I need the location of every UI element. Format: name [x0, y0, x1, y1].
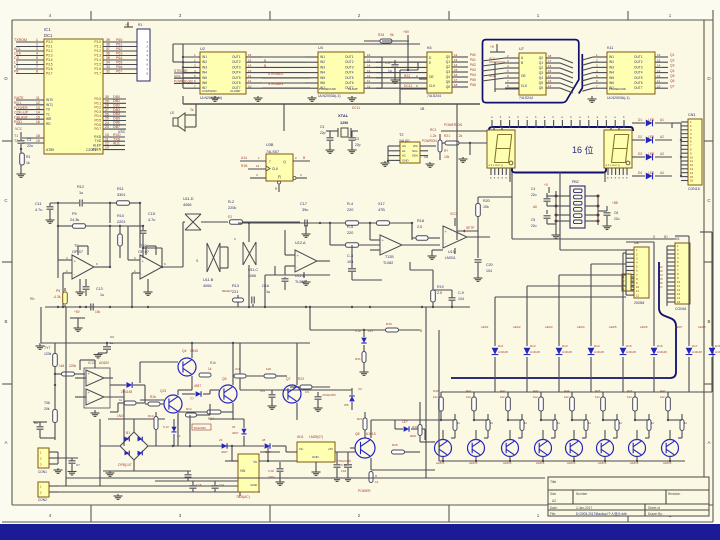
svg-text:12: 12 [657, 74, 661, 78]
svg-text:R12: R12 [77, 185, 84, 189]
svg-text:U3B: U3B [266, 143, 274, 147]
svg-text:4066: 4066 [203, 284, 211, 288]
svg-text:a b c d e f g: a b c d e f g [489, 163, 504, 167]
svg-text:18: 18 [454, 83, 458, 87]
svg-text:LE?: LE? [402, 420, 408, 424]
svg-text:VIN: VIN [240, 469, 246, 473]
svg-text:37: 37 [106, 47, 110, 51]
svg-text:D4: D4 [638, 171, 642, 175]
svg-text:E2: E2 [228, 215, 232, 219]
svg-text:1u: 1u [266, 290, 270, 294]
svg-text:C1: C1 [27, 138, 32, 142]
svg-text:221: 221 [232, 290, 238, 294]
svg-text:10: 10 [367, 84, 371, 88]
svg-text:4007: 4007 [232, 431, 239, 435]
svg-text:Q8: Q8 [355, 432, 360, 436]
svg-text:LED6: LED6 [640, 325, 648, 329]
svg-text:A14: A14 [241, 156, 247, 160]
svg-text:1u: 1u [79, 191, 83, 195]
svg-text:11: 11 [657, 79, 660, 83]
svg-text:LS: LS [170, 111, 174, 115]
svg-text:A2: A2 [402, 154, 406, 158]
svg-text:1k4: 1k4 [59, 364, 64, 368]
svg-text:2.0: 2.0 [437, 291, 442, 295]
svg-text:22p: 22p [355, 143, 361, 147]
svg-text:GND: GND [312, 455, 320, 459]
svg-text:C5: C5 [531, 218, 535, 222]
svg-text:INT0: INT0 [46, 98, 53, 102]
svg-text:CS: CS [14, 56, 20, 60]
svg-text:IN4: IN4 [320, 71, 325, 75]
svg-text:R10: R10 [117, 214, 124, 218]
svg-text:1k2: 1k2 [595, 395, 600, 399]
svg-text:OUT2: OUT2 [345, 60, 354, 64]
svg-text:14: 14 [657, 64, 661, 68]
svg-text:P60: P60 [470, 53, 476, 57]
svg-text:OUT6: OUT6 [634, 81, 643, 85]
svg-text:4700u/25V: 4700u/25V [322, 393, 336, 397]
svg-text:P3.6: P3.6 [46, 67, 53, 71]
svg-text:LED: LED [648, 152, 655, 156]
svg-text:74LS244: 74LS244 [427, 94, 441, 98]
svg-text:IN1: IN1 [320, 55, 325, 59]
svg-text:T2: T2 [399, 133, 403, 137]
svg-text:1k2: 1k2 [466, 395, 471, 399]
svg-text:P1.4: P1.4 [94, 58, 101, 62]
svg-text:15: 15 [657, 58, 661, 62]
svg-text:U13: U13 [448, 250, 455, 254]
svg-text:1k2: 1k2 [433, 395, 438, 399]
svg-text:5: 5 [36, 56, 38, 60]
svg-text:V2: V2 [358, 387, 362, 391]
svg-text:P3.1: P3.1 [46, 45, 53, 49]
svg-text:OUT4: OUT4 [232, 71, 241, 75]
svg-text:23: 23 [219, 438, 223, 442]
svg-text:CLK: CLK [521, 84, 528, 88]
svg-text:C7: C7 [76, 463, 80, 467]
svg-text:25: 25 [232, 425, 236, 429]
svg-text:OUT3: OUT3 [232, 65, 241, 69]
svg-text:Q: Q [283, 160, 286, 164]
svg-text:R21: R21 [357, 417, 363, 421]
svg-text:P66: P66 [470, 83, 476, 87]
svg-text:4937: 4937 [194, 384, 201, 388]
svg-text:Date:: Date: [550, 506, 558, 510]
svg-text:IN2: IN2 [202, 60, 207, 64]
svg-text:P66: P66 [116, 65, 122, 69]
svg-text:SCL: SCL [412, 149, 418, 153]
svg-text:P8: P8 [14, 70, 18, 74]
svg-text:+5V: +5V [74, 310, 81, 314]
svg-text:U7: U7 [519, 47, 524, 51]
svg-text:P64: P64 [116, 56, 122, 60]
svg-text:A6: A6 [533, 205, 537, 209]
svg-text:IC4: IC4 [235, 367, 240, 371]
svg-text:P65: P65 [116, 60, 122, 64]
svg-text:W6: W6 [344, 403, 349, 407]
svg-text:LN4148: LN4148 [562, 350, 572, 354]
svg-text:位: 位 [584, 145, 593, 156]
svg-text:Q6: Q6 [670, 79, 675, 83]
svg-text:OUT3: OUT3 [345, 65, 354, 69]
svg-text:Q2: Q2 [446, 65, 450, 69]
svg-text:WR: WR [46, 117, 52, 121]
svg-text:P3.4: P3.4 [46, 58, 53, 62]
svg-text:+5: +5 [544, 183, 548, 187]
svg-text:A3: A3 [660, 152, 664, 156]
svg-text:LN4148: LN4148 [530, 350, 540, 354]
svg-text:47B: 47B [378, 208, 385, 212]
svg-text:16: 16 [572, 145, 582, 155]
svg-text:2003M: 2003M [634, 301, 645, 305]
svg-text:R25: R25 [392, 443, 398, 447]
svg-text:Q5: Q5 [539, 81, 543, 85]
svg-text:Revision: Revision [668, 492, 680, 496]
svg-text:Ta: Ta [190, 108, 194, 112]
svg-text:4007: 4007 [221, 450, 228, 454]
svg-text:A: A [4, 440, 7, 445]
svg-text:15: 15 [548, 69, 552, 73]
svg-text:2: 2 [36, 43, 38, 47]
svg-text:22u: 22u [531, 224, 537, 228]
svg-text:T?: T? [190, 397, 194, 401]
svg-text:OUT4: OUT4 [634, 71, 643, 75]
svg-text:ALE: ALE [113, 142, 120, 146]
svg-text:+5: +5 [490, 45, 494, 49]
svg-text:OUT4: OUT4 [345, 71, 354, 75]
svg-text:DC11: DC11 [404, 84, 412, 88]
svg-text:74LS244: 74LS244 [519, 96, 533, 100]
svg-text:P67: P67 [116, 69, 122, 73]
svg-text:P1.7: P1.7 [94, 72, 101, 76]
svg-text:B: B [4, 319, 7, 324]
svg-text:14: 14 [367, 64, 371, 68]
svg-text:39: 39 [106, 38, 110, 42]
svg-text:U11.D: U11.D [183, 197, 194, 201]
svg-text:15: 15 [36, 115, 40, 119]
svg-text:P63: P63 [116, 51, 122, 55]
svg-text:R47: R47 [660, 389, 666, 393]
svg-text:35: 35 [106, 56, 110, 60]
svg-text:8: 8 [36, 70, 38, 74]
svg-text:C-9: C-9 [458, 291, 464, 295]
svg-text:R31: R31 [355, 357, 361, 361]
svg-text:P3.5: P3.5 [46, 63, 53, 67]
svg-text:CLK: CLK [14, 52, 22, 56]
svg-text:LED8: LED8 [698, 325, 706, 329]
svg-text:Q5: Q5 [446, 80, 450, 84]
svg-text:16: 16 [690, 179, 694, 183]
svg-text:R1b: R1b [210, 361, 216, 365]
svg-text:1k2: 1k2 [627, 395, 632, 399]
svg-text:15: 15 [367, 58, 371, 62]
svg-text:x: x [234, 237, 236, 241]
svg-text:Q4: Q4 [182, 349, 187, 353]
svg-text:PSEN: PSEN [92, 148, 101, 152]
svg-text:R46: R46 [627, 389, 633, 393]
svg-text:R43: R43 [533, 389, 539, 393]
svg-text:Q5: Q5 [222, 377, 227, 381]
svg-text:LN4148: LN4148 [657, 350, 667, 354]
svg-text:4066: 4066 [183, 203, 191, 207]
svg-text:34: 34 [106, 61, 110, 65]
svg-text:TL082: TL082 [383, 261, 393, 265]
svg-text:1k2: 1k2 [564, 395, 569, 399]
svg-text:14: 14 [248, 64, 252, 68]
svg-text:E: E [429, 61, 431, 65]
svg-text:POWER-ON: POWER-ON [444, 123, 463, 127]
svg-text:P1.6: P1.6 [94, 67, 101, 71]
svg-text:C17: C17 [300, 202, 307, 206]
svg-text:E7: E7 [14, 65, 18, 69]
svg-text:5.1V: 5.1V [163, 425, 169, 429]
svg-text:OE: OE [521, 74, 526, 78]
svg-text:DB7: DB7 [113, 125, 120, 129]
svg-text:RC1: RC1 [430, 128, 437, 132]
svg-text:3: 3 [36, 47, 38, 51]
svg-text:Q4: Q4 [539, 76, 543, 80]
svg-text:ACL: ACL [14, 47, 21, 51]
svg-text:Q13: Q13 [160, 389, 166, 393]
svg-text:CON16: CON16 [675, 307, 686, 311]
svg-text:C15: C15 [148, 212, 155, 216]
svg-text:104: 104 [341, 469, 346, 473]
svg-text:OUT7: OUT7 [232, 86, 241, 90]
svg-text:R22: R22 [404, 74, 410, 78]
svg-text:IN2: IN2 [609, 60, 614, 64]
svg-text:R21: R21 [444, 134, 450, 138]
svg-text:R1b: R1b [150, 395, 156, 399]
svg-text:R41: R41 [466, 389, 472, 393]
svg-text:STROBE2: STROBE2 [268, 72, 284, 76]
svg-text:D2: D2 [638, 135, 642, 139]
svg-text:10k: 10k [444, 155, 450, 159]
svg-text:18: 18 [36, 134, 40, 138]
svg-text:13: 13 [548, 79, 552, 83]
svg-text:R34: R34 [378, 33, 384, 37]
svg-text:Q2: Q2 [670, 58, 675, 62]
svg-text:IN6: IN6 [320, 81, 325, 85]
svg-text:1k2: 1k2 [500, 395, 505, 399]
svg-text:IC1: IC1 [44, 27, 51, 32]
svg-text:3301: 3301 [117, 193, 125, 197]
svg-text:11: 11 [367, 79, 370, 83]
svg-text:10k: 10k [483, 205, 489, 209]
svg-text:P1.0: P1.0 [94, 40, 101, 44]
svg-text:13: 13 [36, 106, 40, 110]
svg-text:LED7: LED7 [675, 325, 683, 329]
svg-text:10: 10 [248, 84, 252, 88]
svg-text:XTAL: XTAL [338, 113, 349, 118]
svg-text:16: 16 [248, 53, 252, 57]
svg-text:P3.7: P3.7 [46, 72, 53, 76]
svg-text:LM29(07): LM29(07) [309, 435, 323, 439]
svg-text:C8: C8 [424, 155, 428, 159]
svg-text:INT1: INT1 [46, 103, 53, 107]
svg-text:-4.3k: -4.3k [53, 295, 61, 299]
svg-text:GND: GND [250, 483, 258, 487]
svg-text:A4: A4 [660, 171, 664, 175]
svg-text:Q4: Q4 [446, 75, 450, 79]
svg-text:P3.2: P3.2 [46, 49, 53, 53]
svg-text:13: 13 [105, 146, 109, 150]
svg-text:Q1: Q1 [539, 61, 543, 65]
svg-text:A1: A1 [402, 149, 406, 153]
svg-text:Sheet of: Sheet of [648, 506, 660, 510]
svg-text:C9: C9 [305, 390, 309, 394]
svg-text:20k: 20k [44, 407, 50, 411]
svg-text:7805(AC): 7805(AC) [236, 495, 250, 499]
svg-text:Vo: Vo [253, 460, 257, 464]
svg-text:POWRON: POWRON [422, 139, 437, 143]
svg-text:36: 36 [106, 52, 110, 56]
svg-text:OUT1: OUT1 [232, 55, 241, 59]
svg-text:DC11: DC11 [352, 106, 360, 110]
svg-text:1: 1 [36, 38, 38, 42]
svg-text:C11: C11 [35, 202, 42, 206]
svg-text:16: 16 [367, 53, 371, 57]
svg-text:T0: T0 [46, 108, 50, 112]
svg-text:Drawn By:: Drawn By: [648, 512, 663, 516]
svg-text:OUT6: OUT6 [345, 81, 354, 85]
svg-text:IN2: IN2 [320, 60, 325, 64]
svg-text:16: 16 [657, 53, 661, 57]
svg-text:23: 23 [105, 125, 109, 129]
svg-text:R: R [278, 175, 281, 180]
svg-text:4.7u: 4.7u [148, 218, 155, 222]
svg-text:P62: P62 [116, 47, 122, 51]
svg-text:Q2: Q2 [539, 66, 543, 70]
svg-text:12: 12 [36, 101, 40, 105]
svg-text:OPB(147: OPB(147 [118, 463, 132, 467]
svg-text:12: 12 [548, 84, 552, 88]
svg-text:OUT3: OUT3 [634, 65, 643, 69]
svg-text:220: 220 [347, 208, 353, 212]
svg-text:Q7: Q7 [670, 84, 675, 88]
svg-text:P9: P9 [72, 212, 77, 216]
svg-text:IN4: IN4 [609, 71, 614, 75]
svg-text:12: 12 [454, 53, 458, 57]
svg-text:LN4148: LN4148 [692, 350, 702, 354]
svg-text:10k: 10k [95, 310, 101, 314]
svg-text:1k: 1k [119, 398, 123, 402]
svg-text:D18: D18 [715, 344, 720, 348]
svg-text:CON2: CON2 [38, 498, 47, 502]
svg-text:LED: LED [648, 118, 655, 122]
svg-text:POWERGND: POWERGND [319, 87, 336, 91]
svg-text:Q3: Q3 [539, 71, 543, 75]
svg-text:17: 17 [454, 78, 458, 82]
svg-text:14: 14 [454, 63, 458, 67]
svg-text:1B: 1B [420, 107, 425, 111]
svg-text:LN4148: LN4148 [715, 350, 720, 354]
svg-text:Q4: Q4 [670, 69, 675, 73]
svg-text:39u: 39u [302, 208, 308, 212]
svg-text:D14: D14 [594, 344, 600, 348]
svg-text:C3: C3 [320, 125, 324, 129]
svg-text:P61: P61 [116, 42, 122, 46]
svg-text:K6: K6 [427, 46, 432, 50]
svg-text:A2: A2 [660, 135, 664, 139]
svg-text:R42: R42 [500, 389, 506, 393]
svg-text:U11.B: U11.B [203, 278, 214, 282]
svg-text:104: 104 [458, 297, 464, 301]
svg-text:VCC: VCC [15, 127, 23, 131]
svg-text:OUT5: OUT5 [232, 76, 241, 80]
svg-text:SETP: SETP [466, 226, 474, 230]
svg-text:OUT2: OUT2 [634, 60, 643, 64]
svg-text:P60: P60 [116, 38, 122, 42]
svg-text:4700uF/25V: 4700uF/25V [337, 459, 351, 463]
svg-text:POWERGND: POWERGND [609, 87, 626, 91]
svg-text:LN4148: LN4148 [498, 350, 508, 354]
svg-text:POWER: POWER [358, 489, 371, 493]
svg-text:Q3: Q3 [670, 64, 675, 68]
svg-text:IN6: IN6 [202, 81, 207, 85]
svg-text:1k: 1k [208, 367, 212, 371]
svg-text:2201: 2201 [117, 220, 125, 224]
svg-text:A0: A0 [402, 144, 406, 148]
svg-text:1.2k: 1.2k [430, 134, 437, 138]
svg-text:24.3k: 24.3k [70, 218, 79, 222]
svg-text:1k: 1k [375, 480, 379, 484]
svg-text:1u: 1u [110, 341, 114, 345]
svg-text:P1.1: P1.1 [94, 45, 101, 49]
svg-text:U2: U2 [200, 47, 205, 51]
svg-text:22p: 22p [320, 131, 326, 135]
svg-text:16: 16 [548, 64, 552, 68]
svg-text:IN3: IN3 [609, 65, 614, 69]
svg-text:D:\2003-2017\Backup\个人设计.ddb: D:\2003-2017\Backup\个人设计.ddb [576, 511, 627, 516]
svg-text:LN4148: LN4148 [594, 350, 604, 354]
svg-text:Z2: Z2 [177, 434, 181, 438]
svg-text:17: 17 [548, 59, 552, 63]
svg-text:1k2: 1k2 [660, 395, 665, 399]
svg-text:IN3: IN3 [202, 65, 207, 69]
svg-text:11: 11 [36, 96, 40, 100]
svg-text:Q3: Q3 [446, 70, 450, 74]
svg-text:IN5: IN5 [609, 76, 614, 80]
svg-text:15: 15 [677, 300, 681, 304]
svg-text:R1: R1 [26, 155, 31, 159]
svg-text:Number: Number [576, 492, 588, 496]
svg-text:1k2: 1k2 [533, 395, 538, 399]
svg-text:R-4: R-4 [347, 202, 353, 206]
svg-text:T12B: T12B [385, 255, 394, 259]
svg-text:P1.3: P1.3 [94, 54, 101, 58]
svg-text:LED: LED [648, 135, 655, 139]
svg-text:15: 15 [454, 68, 458, 72]
svg-text:P5: P5 [56, 289, 60, 293]
svg-text:OUT5: OUT5 [345, 76, 354, 80]
svg-text:LED: LED [648, 171, 655, 175]
svg-text:T1: T1 [14, 134, 18, 138]
svg-text:14: 14 [36, 111, 40, 115]
svg-text:Q0: Q0 [539, 56, 543, 60]
svg-text:R19: R19 [437, 285, 444, 289]
svg-text:SDA: SDA [412, 154, 418, 158]
svg-text:D15: D15 [626, 344, 632, 348]
svg-text:13: 13 [454, 58, 458, 62]
svg-text:TDA2030: TDA2030 [194, 426, 207, 430]
svg-text:38: 38 [106, 43, 110, 47]
svg-text:P1.2: P1.2 [94, 49, 101, 53]
svg-text:R-2: R-2 [228, 200, 234, 204]
svg-text:11: 11 [248, 79, 251, 83]
svg-text:220k: 220k [69, 364, 77, 368]
svg-text:T1: T1 [46, 112, 50, 116]
svg-text:OE: OE [429, 75, 434, 79]
